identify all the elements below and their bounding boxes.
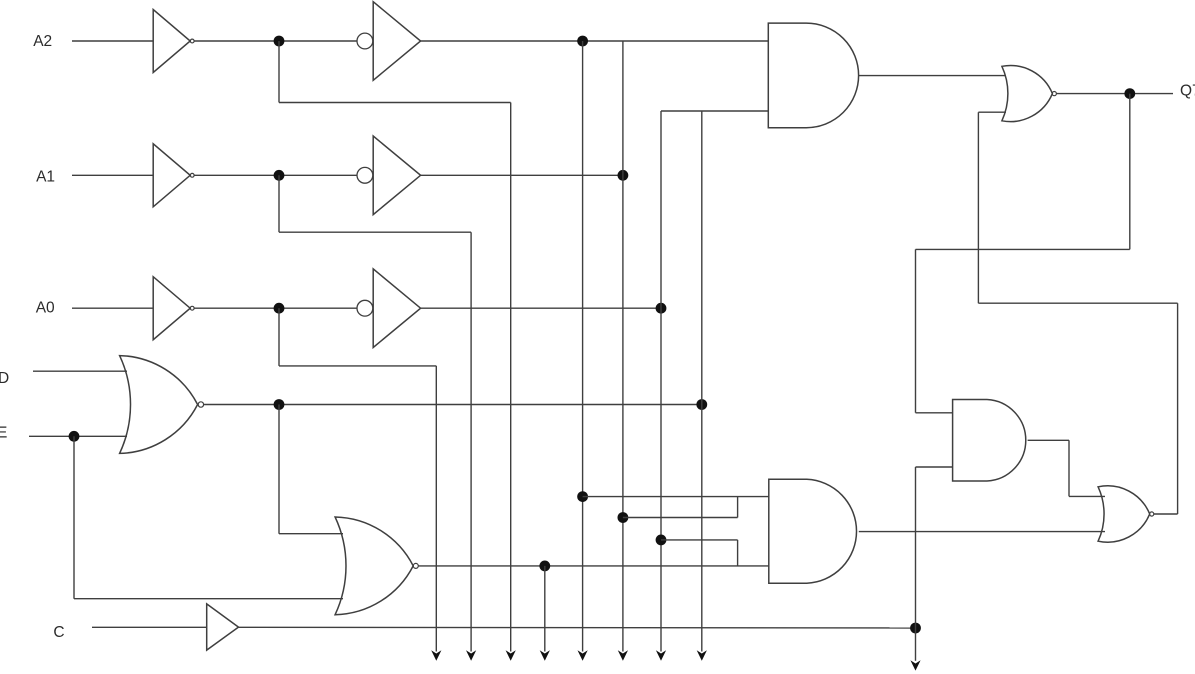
- wire A0n column down: [435, 366, 437, 652]
- wire NOR U7 output: [204, 404, 702, 406]
- buffer U9 (C): [207, 604, 239, 650]
- wire A0n drop horizontal: [279, 365, 436, 367]
- svg-text:C: C: [53, 624, 64, 641]
- off-page arrow x=544.8: [540, 650, 550, 661]
- wire A2n drop horizontal: [279, 102, 511, 104]
- wire U12 output down: [1068, 440, 1070, 496]
- off-page arrow A2n: [506, 650, 516, 661]
- wire C input: [92, 626, 207, 628]
- wire U12 output segment: [1028, 439, 1069, 441]
- wire U12 output to NOR U13 top input: [1069, 495, 1105, 497]
- off-page arrow x=701.8: [697, 650, 707, 661]
- wire U7 branch to NOR U8 top input: [279, 533, 343, 535]
- wire A2 input: [72, 40, 153, 42]
- node junction on U7 output x=279: [274, 399, 285, 410]
- wire link vertical x=737.6 upper: [737, 497, 739, 518]
- wire A2 buffered to AND U10 top input: [421, 40, 769, 42]
- wire A0 input: [72, 307, 153, 309]
- wire NOR U8 output to AND U11 bottom input: [418, 565, 768, 567]
- node junction on A2 line x=582.6: [577, 36, 588, 47]
- nor-gate U13 (bottom right): [1098, 486, 1150, 542]
- wire U12 bottom input vertical: [915, 467, 917, 628]
- node A2n junction: [274, 36, 285, 47]
- node Q7 junction: [1124, 88, 1135, 99]
- node E junction: [69, 431, 80, 442]
- wire E branch down: [73, 436, 75, 598]
- wire Q7 feedback down left: [915, 249, 917, 412]
- nor-gate U7 (inputs D,E): [120, 356, 198, 454]
- node C junction x=915.5: [910, 623, 921, 634]
- wire to AND U11 top input: [583, 496, 769, 498]
- wire A1 buffered segment: [421, 174, 623, 176]
- node A1n junction: [274, 170, 285, 181]
- wire A1n drop vertical: [278, 175, 280, 232]
- wire U11 output to NOR U13 bottom input: [859, 531, 1105, 533]
- wire U13 feedback up: [1177, 303, 1179, 514]
- and-gate U11 (bottom): [769, 479, 857, 583]
- wire A1 input: [72, 174, 153, 176]
- wire E branch to NOR U8 bottom input: [74, 598, 343, 600]
- wire A1n column down: [470, 232, 472, 651]
- svg-text:D: D: [0, 370, 9, 387]
- inverter U5 (A1, bubble-input): [357, 167, 373, 183]
- wire A0 buffered segment: [421, 307, 661, 309]
- wire U13 feedback horizontal: [978, 302, 1177, 304]
- wire U10 output: [859, 75, 1007, 77]
- wire D input: [33, 370, 127, 372]
- wire y=539.9 horizontal: [661, 539, 738, 541]
- svg-text:A1: A1: [36, 168, 55, 185]
- off-page arrow x=661: [656, 650, 666, 661]
- node junction on U8 output x=544.8: [539, 561, 550, 572]
- wire U7 output branch down: [278, 405, 280, 534]
- wire y=517.5 horizontal: [623, 517, 738, 519]
- inverter U3 (A0): [153, 277, 190, 340]
- wire U13 output segment: [1154, 513, 1178, 515]
- wire U13 feedback to U14 vertical: [977, 112, 979, 303]
- wire column x=701.8: [701, 111, 703, 652]
- svg-text:E: E: [0, 425, 7, 442]
- wire U12 top input stub: [916, 412, 953, 414]
- wire U12 bottom input stub: [916, 466, 953, 468]
- wire U14 bottom input stub: [978, 111, 1006, 113]
- and-gate U10 (top right): [768, 23, 858, 128]
- wire A2n column down: [510, 103, 512, 652]
- node junction on A0 line x=661: [656, 303, 667, 314]
- off-page arrow x=622.9: [618, 650, 628, 661]
- nor-gate U14 (top right, Q7): [1002, 66, 1053, 122]
- wire link vertical x=737.6 lower: [737, 540, 739, 566]
- off-page arrow A1n: [466, 650, 476, 661]
- inverter U6 (A0, bubble-input): [357, 300, 373, 316]
- off-page arrow x=582.6: [578, 650, 588, 661]
- inverter U4 (A2, bubble-input): [357, 33, 373, 49]
- and-gate U12 (middle right): [953, 400, 1026, 482]
- svg-text:A2: A2: [33, 33, 52, 50]
- off-page arrow C: [910, 660, 920, 670]
- wire Q7 feedback down: [1129, 94, 1131, 250]
- wire Q7 output: [1056, 93, 1173, 95]
- wire A1n drop horizontal: [279, 231, 471, 233]
- node junction x=582.6 y=496.6: [577, 491, 588, 502]
- wire A1 inverted segment: [194, 174, 357, 176]
- wire C buffered long line: [239, 626, 916, 629]
- wire column x=582.6: [582, 41, 584, 652]
- wire A0n drop vertical: [278, 308, 280, 366]
- node junction on A1 line x=622.9: [618, 170, 629, 181]
- wire C column down to arrow: [915, 628, 917, 661]
- wire column x=622.9: [622, 41, 624, 652]
- wire column x=661: [660, 111, 662, 652]
- wire E input: [29, 435, 127, 437]
- node A0n junction: [274, 303, 285, 314]
- svg-text:A0: A0: [36, 300, 55, 317]
- off-page arrow A0n: [431, 650, 441, 661]
- wire A0 inverted segment: [194, 307, 357, 309]
- wire Q7 feedback horizontal: [916, 248, 1130, 250]
- wire AND U10 bottom input horizontal y=111: [661, 110, 768, 112]
- nor-gate U8 (lower left): [335, 517, 413, 615]
- inverter U2 (A1): [153, 144, 190, 207]
- node junction on U7 output x=701.8: [696, 399, 707, 410]
- node junction x=661 y=539.9: [656, 535, 667, 546]
- wire A2n drop vertical: [278, 41, 280, 103]
- svg-text:Q7: Q7: [1180, 83, 1195, 100]
- wire column x=544.8 down: [544, 566, 546, 652]
- inverter U1 (A2): [153, 10, 190, 73]
- node junction x=622.9 y=517.5: [618, 512, 629, 523]
- wire A2 inverted segment: [194, 40, 357, 42]
